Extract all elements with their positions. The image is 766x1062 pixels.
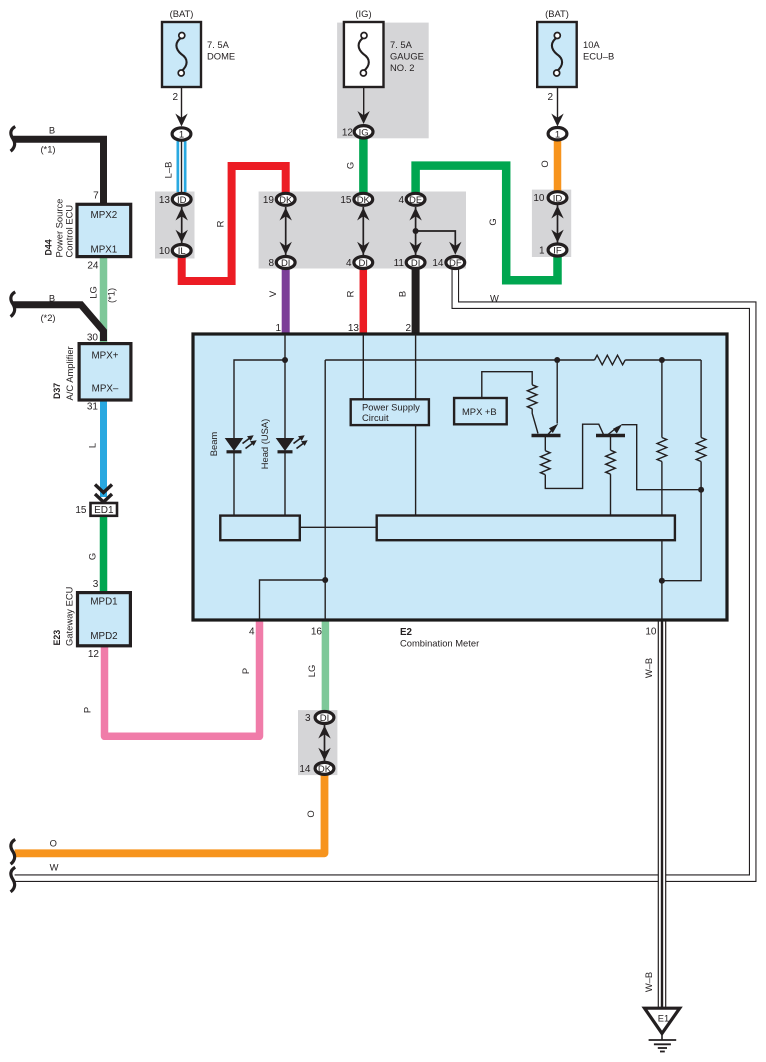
svg-text:7: 7: [93, 191, 99, 202]
meter internal circuit: [234, 334, 706, 620]
svg-text:2: 2: [405, 323, 411, 334]
svg-text:MPD1: MPD1: [90, 597, 117, 608]
svg-text:A/C Amplifier: A/C Amplifier: [64, 346, 75, 400]
resistor above Q1: [527, 385, 537, 409]
svg-text:IL: IL: [178, 246, 186, 257]
svg-text:W–B: W–B: [643, 658, 654, 678]
svg-text:W: W: [490, 293, 499, 304]
node rail A bottom: [659, 578, 665, 584]
svg-text:DF: DF: [449, 258, 462, 269]
gray bg DI/DK bottom connector: [298, 710, 337, 775]
svg-text:DK: DK: [279, 195, 293, 206]
svg-text:Head (USA): Head (USA): [259, 419, 270, 470]
svg-text:P: P: [240, 668, 251, 674]
svg-text:12: 12: [88, 649, 100, 660]
svg-text:E2: E2: [400, 627, 413, 638]
svg-text:4: 4: [346, 258, 352, 269]
svg-text:B: B: [49, 125, 55, 136]
svg-text:10: 10: [645, 627, 657, 638]
svg-text:O: O: [50, 838, 57, 849]
wire Q1 to Q2 base: [545, 424, 604, 488]
connector ID/IL (13/10): [159, 193, 191, 257]
MPX +B box: [454, 398, 507, 424]
wire P from E23 pin 12 to meter pin 4: [105, 620, 260, 736]
fuse GAUGE NO.2 7.5A: [342, 8, 424, 139]
svg-text:L–B: L–B: [163, 162, 174, 179]
wire pin1 to LED head: [284, 334, 286, 438]
wire V from DI(8) to meter pin 1: [282, 268, 290, 335]
svg-text:LG: LG: [306, 665, 317, 678]
svg-text:IG: IG: [359, 127, 369, 138]
wire LED beam cathode down: [233, 453, 235, 516]
wire O from fuse ECU-B to ID(10): [554, 141, 562, 192]
junction dots: [282, 228, 704, 584]
svg-text:4: 4: [398, 195, 404, 206]
svg-text:E23: E23: [52, 630, 62, 646]
svg-text:15: 15: [340, 195, 352, 206]
svg-text:14: 14: [432, 258, 444, 269]
wire Q1 collector riser: [556, 360, 558, 424]
svg-text:MPX2: MPX2: [91, 210, 118, 221]
resistor below Q2: [606, 450, 616, 474]
svg-text:DI: DI: [359, 258, 369, 269]
gray bg DK/DI/DE/DF connector: [259, 192, 466, 269]
resistor R-top horizontal: [595, 355, 626, 365]
wire top rail right: [625, 359, 701, 361]
ground E1: [645, 1008, 680, 1051]
svg-text:DK: DK: [318, 764, 332, 775]
svg-text:(*2): (*2): [40, 312, 55, 323]
wire G from ED1 to E23 pin 3: [100, 516, 108, 593]
Q2 emitter diagonal: [606, 427, 618, 437]
svg-text:7. 5A: 7. 5A: [207, 39, 230, 50]
svg-text:Beam: Beam: [208, 432, 219, 457]
connector DE/DI/DF (4/11/14): [394, 193, 465, 269]
svg-text:DI: DI: [411, 258, 421, 269]
Q1 emitter diagonal: [546, 427, 555, 437]
svg-text:Gateway ECU: Gateway ECU: [63, 586, 74, 646]
wire O from DK(14) to bottom-left: [15, 774, 325, 853]
svg-text:W–B: W–B: [643, 972, 654, 992]
wire L-B from fuse DOME to ID connector: [177, 141, 187, 192]
svg-text:MPD2: MPD2: [90, 631, 117, 642]
bus bar main box: [377, 516, 675, 541]
svg-text:O: O: [305, 810, 316, 817]
svg-text:1: 1: [539, 246, 545, 257]
svg-text:ID: ID: [177, 195, 187, 206]
svg-text:10: 10: [533, 193, 545, 204]
svg-text:NO. 2: NO. 2: [390, 62, 415, 73]
connector ID/IF (10/1): [533, 192, 567, 257]
svg-text:16: 16: [311, 627, 323, 638]
wire B (*2) to D37 pin 30: [13, 305, 104, 341]
wire R from IL to DK(19): [182, 166, 286, 281]
wire right rail B upper: [700, 360, 702, 438]
svg-text:GAUGE: GAUGE: [390, 51, 424, 62]
transistor Q1 base bar: [532, 434, 561, 437]
svg-text:(BAT): (BAT): [170, 8, 194, 19]
wire bus link: [300, 526, 377, 528]
svg-text:DE: DE: [409, 195, 422, 206]
svg-text:DI: DI: [320, 713, 330, 724]
wire B from DI(11) to meter pin 2: [412, 268, 420, 335]
svg-text:10A: 10A: [583, 39, 600, 50]
wire rail A to bus: [661, 462, 663, 516]
fuse DOME 7.5A: [162, 8, 235, 141]
LED beam: [225, 435, 257, 452]
svg-text:R: R: [345, 290, 356, 297]
svg-text:IF: IF: [553, 246, 562, 257]
svg-text:V: V: [267, 290, 278, 297]
svg-text:R: R: [215, 220, 226, 227]
svg-text:P: P: [82, 707, 93, 713]
D37 A/C Amplifier: [52, 333, 131, 413]
wire LG from D44 pin 24 to D37 pin 30: [100, 257, 108, 344]
svg-text:(*1): (*1): [106, 288, 117, 303]
fuse ECU-B 10A: [537, 8, 614, 140]
connector DI/DK bottom (3/14): [299, 712, 334, 776]
Q2 emitter arrowhead: [613, 424, 622, 433]
svg-text:7. 5A: 7. 5A: [390, 39, 413, 50]
wire R from DI(4) to meter pin 13: [360, 268, 368, 335]
resistor below Q1: [541, 451, 551, 475]
wire G loop DE to IF: [416, 166, 558, 281]
squiggle B (*2): [11, 292, 16, 317]
combination meter box E2: [193, 334, 727, 620]
svg-text:Circuit: Circuit: [362, 412, 389, 423]
wire rail B lower: [662, 462, 701, 581]
wire below Q2: [610, 437, 612, 450]
E23 Gateway ECU: [52, 579, 130, 660]
svg-text:W: W: [50, 862, 59, 873]
svg-text:MPX–: MPX–: [92, 384, 119, 395]
wire pin2 to power supply circuit: [415, 334, 417, 399]
gray bg ID/IF connector: [532, 190, 571, 257]
node rail B mid: [698, 487, 704, 493]
node pin4/pin16: [322, 577, 328, 583]
svg-text:ED1: ED1: [94, 505, 114, 516]
gray bg fuse GAUGE: [337, 23, 429, 139]
svg-text:Power Supply: Power Supply: [362, 402, 420, 413]
LED head (USA): [276, 435, 308, 452]
svg-text:D44: D44: [44, 239, 54, 255]
svg-text:24: 24: [87, 261, 99, 272]
svg-text:19: 19: [263, 195, 275, 206]
squiggle B (*1): [11, 127, 16, 152]
svg-text:Control ECU: Control ECU: [63, 205, 74, 258]
svg-text:(BAT): (BAT): [545, 8, 569, 19]
svg-text:12: 12: [342, 128, 354, 139]
svg-text:DK: DK: [357, 195, 371, 206]
svg-text:B: B: [49, 293, 55, 304]
svg-text:1: 1: [275, 323, 281, 334]
svg-text:DOME: DOME: [207, 51, 235, 62]
squiggle W: [11, 867, 16, 892]
svg-text:10: 10: [159, 246, 171, 257]
wire Q2 resistor to bus: [610, 474, 612, 515]
svg-text:(IG): (IG): [355, 8, 371, 19]
svg-text:31: 31: [87, 402, 99, 413]
svg-text:1: 1: [179, 130, 184, 141]
wire pin16 riser: [324, 360, 326, 620]
wire G fuse GAUGE to DK(15): [359, 138, 368, 193]
wire LED head cathode down: [284, 453, 286, 516]
svg-text:LG: LG: [88, 286, 99, 299]
wire B (*1) top-left to D44 pin 7: [13, 139, 104, 204]
svg-text:3: 3: [305, 713, 311, 724]
gray connector backgrounds: [155, 23, 571, 776]
svg-text:DI: DI: [281, 258, 291, 269]
svg-text:4: 4: [249, 627, 255, 638]
svg-text:14: 14: [299, 764, 311, 775]
node LED branch: [282, 357, 288, 363]
svg-text:11: 11: [394, 258, 405, 269]
svg-text:B: B: [397, 291, 408, 297]
Q1 emitter arrowhead: [549, 424, 558, 433]
connector DK/DI (15/4): [340, 193, 372, 269]
svg-text:MPX+: MPX+: [92, 351, 119, 362]
svg-text:3: 3: [93, 579, 99, 590]
svg-text:15: 15: [75, 505, 87, 516]
D44 Power Source Control ECU: [44, 191, 131, 272]
wire pin13 to power supply circuit: [362, 334, 364, 399]
svg-text:13: 13: [348, 323, 360, 334]
svg-text:E1: E1: [658, 1013, 669, 1024]
wire rail A below bus to pin10: [661, 540, 663, 620]
svg-text:MPX +B: MPX +B: [462, 406, 497, 417]
wire Q2 emitter chain: [622, 425, 702, 490]
transistor Q2 base bar: [596, 434, 625, 437]
svg-text:30: 30: [87, 333, 99, 344]
svg-text:2: 2: [172, 92, 178, 103]
wire W (white, double line loop from DF to bottom-left): [14, 264, 753, 878]
svg-text:L: L: [87, 443, 98, 448]
wire pin4 branch: [260, 580, 326, 620]
svg-text:1: 1: [555, 129, 560, 140]
shield chevrons above ED1: [95, 485, 112, 493]
power supply circuit box: [351, 399, 429, 425]
svg-text:8: 8: [268, 258, 274, 269]
wire branch to LED beam: [234, 360, 285, 438]
resistor rail A: [657, 438, 667, 462]
wire resistor to Q1: [532, 409, 538, 434]
svg-text:D37: D37: [52, 383, 62, 399]
gray bg ID/IL connector: [155, 192, 195, 259]
node rail A top: [659, 357, 665, 363]
wire MPX+B to base resistor: [482, 372, 532, 398]
svg-text:G: G: [87, 553, 98, 560]
wire top rail: [325, 359, 594, 361]
svg-text:ECU–B: ECU–B: [583, 51, 614, 62]
wire Q1 emitter chain: [544, 437, 546, 451]
wire L from D37 pin 31 to ED1: [100, 400, 107, 497]
node Q1 collector: [554, 357, 560, 363]
svg-text:2: 2: [547, 92, 553, 103]
svg-text:13: 13: [159, 195, 171, 206]
node DE branch: [413, 228, 419, 234]
svg-text:(*1): (*1): [40, 144, 55, 155]
wire right rail A upper: [661, 360, 663, 438]
squiggle O: [11, 839, 16, 864]
connector DK/DI (19/8): [263, 193, 295, 269]
svg-text:ID: ID: [553, 193, 563, 204]
bus bar left box: [220, 516, 299, 541]
svg-text:G: G: [487, 218, 498, 225]
wire PSC to main bus: [415, 425, 417, 515]
svg-text:O: O: [539, 160, 550, 167]
svg-text:G: G: [345, 162, 356, 169]
resistor rail B: [696, 438, 706, 462]
wire W-B from meter pin 10 to ground E1: [658, 620, 667, 1008]
svg-text:MPX1: MPX1: [91, 245, 118, 256]
wire LG from meter pin 16 to DI(3): [322, 620, 330, 712]
svg-text:Combination Meter: Combination Meter: [400, 638, 479, 649]
